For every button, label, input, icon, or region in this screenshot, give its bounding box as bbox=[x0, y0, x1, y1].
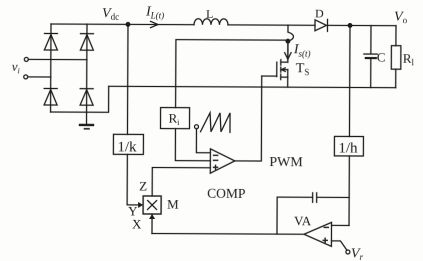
wire sense to Ri bbox=[176, 40, 288, 109]
wire Ri to comparator bbox=[175, 129, 210, 161]
transistor Q1 TS mosfet bbox=[262, 41, 288, 87]
svg-text:PWM: PWM bbox=[269, 155, 303, 170]
sign minus VA bbox=[324, 226, 329, 228]
current arrow Is(t) bbox=[285, 41, 291, 59]
wire top rail mid bbox=[228, 24, 315, 26]
arrow into M X input bbox=[149, 214, 155, 219]
node after diode bbox=[348, 24, 352, 28]
svg-text:X: X bbox=[132, 216, 142, 231]
svg-text:Z: Z bbox=[139, 178, 147, 193]
sign plus VA bbox=[322, 239, 327, 241]
op-amp VA bbox=[304, 222, 332, 246]
terminal Vr bbox=[346, 250, 350, 254]
capacitor feedback bbox=[313, 193, 350, 203]
wire drain drop with hop bbox=[288, 25, 294, 41]
arrow into M Y input bbox=[138, 202, 143, 208]
wire PWM output to gate bbox=[235, 76, 262, 161]
current arrow IL(t) bbox=[150, 21, 158, 27]
wire Vo sense to 1/h bbox=[348, 25, 351, 136]
capacitor C bbox=[364, 26, 378, 88]
wire top rail left bbox=[51, 23, 194, 26]
wire return rail bbox=[109, 86, 396, 87]
block Ri bbox=[160, 108, 189, 129]
diode bridge D1 bbox=[44, 33, 57, 50]
sign plus mult bbox=[213, 166, 218, 168]
diode bridge D4 bbox=[80, 89, 93, 106]
node drain sense bbox=[286, 39, 290, 43]
svg-text:M: M bbox=[167, 197, 179, 212]
svg-text:L: L bbox=[206, 7, 213, 21]
diode D bbox=[315, 19, 328, 31]
diode bridge D2 bbox=[80, 34, 93, 51]
wire VA output line to M bbox=[152, 233, 304, 236]
svg-text:VA: VA bbox=[294, 213, 312, 228]
wire VA plus input to Vr bbox=[331, 241, 347, 250]
svg-text:D: D bbox=[315, 6, 324, 20]
wire top rail right bbox=[328, 24, 396, 26]
wire feedback vertical bbox=[277, 197, 312, 234]
wire 1/k to M bbox=[127, 154, 138, 205]
node Vdc bbox=[126, 23, 130, 27]
block 1/k bbox=[113, 134, 143, 154]
multiplier M bbox=[143, 196, 161, 214]
wire vi lower bbox=[28, 76, 51, 78]
svg-text:1/h: 1/h bbox=[338, 140, 358, 156]
sign minus ramp bbox=[213, 154, 218, 156]
wire Vdc to 1/k bbox=[126, 24, 129, 134]
svg-text:1/k: 1/k bbox=[117, 139, 137, 155]
sign minus Ri bbox=[213, 159, 218, 161]
op-amp comparator COMP bbox=[210, 149, 235, 174]
resistor RL bbox=[391, 26, 401, 88]
inductor L bbox=[194, 19, 228, 25]
svg-text:C: C bbox=[377, 50, 386, 65]
ground bbox=[80, 112, 93, 129]
wire M X input bbox=[151, 214, 153, 233]
block 1/h bbox=[334, 136, 363, 156]
wire ramp to comparator bbox=[196, 129, 210, 153]
terminal ramp bbox=[194, 125, 198, 129]
waveform sawtooth bbox=[200, 113, 230, 133]
diode bridge D3 bbox=[44, 88, 57, 105]
wire M Z output to comparator bbox=[152, 168, 210, 197]
wire bridge left leg bbox=[50, 24, 52, 112]
wire bridge bottom rail bbox=[51, 86, 109, 112]
svg-text:COMP: COMP bbox=[207, 186, 245, 201]
terminal vi lower bbox=[24, 75, 28, 79]
wire vi upper bbox=[28, 58, 86, 60]
wire 1/h to VA bbox=[348, 156, 350, 225]
wire bridge right leg bbox=[86, 24, 88, 112]
terminal vi upper bbox=[24, 57, 28, 61]
wire VA minus input bbox=[332, 224, 349, 226]
comparator input signs bbox=[212, 155, 329, 243]
